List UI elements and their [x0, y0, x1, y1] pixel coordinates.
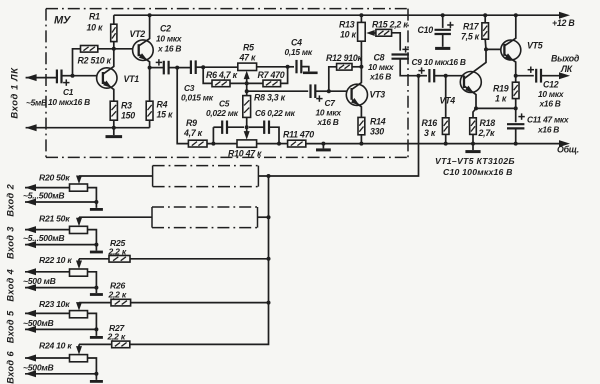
svg-text:7,5 к: 7,5 к [461, 32, 480, 42]
capacitor C4 [297, 60, 302, 73]
MU block dash-dot border [46, 9, 408, 158]
R24 wiper arrow [78, 344, 80, 351]
wire R22 right down [88, 272, 97, 293]
node R17/VT4 coll/VT5 base [484, 47, 488, 51]
resistor R15 [376, 29, 392, 36]
ground input stage 2 [90, 208, 103, 211]
svg-text:Выход: Выход [551, 54, 580, 64]
svg-text:VT2: VT2 [130, 29, 146, 39]
svg-text:10 мкх: 10 мкх [368, 62, 394, 72]
svg-text:C10 100мкх16 В: C10 100мкх16 В [443, 167, 513, 177]
svg-text:х16 В: х16 В [537, 125, 559, 135]
wire R20 wiper to MU2 [79, 175, 153, 177]
transistor VT4 [460, 49, 486, 108]
svg-text:C12: C12 [543, 80, 559, 90]
svg-text:C1: C1 [63, 87, 74, 97]
arrow input2 upper [25, 184, 36, 191]
svg-text:R6 4,7 к: R6 4,7 к [206, 70, 238, 80]
wire wiper down [246, 83, 248, 95]
ground under R3 [106, 128, 123, 137]
R20 wiper arrow [78, 176, 80, 181]
svg-text:х16 В: х16 В [369, 72, 391, 82]
wire C8 to C9 node [400, 59, 418, 76]
resistor R6 [212, 80, 230, 87]
arrow input1 upper [26, 74, 37, 81]
resistor R19 [512, 82, 519, 98]
resistor R1 [111, 24, 117, 41]
node R19/C11 [514, 106, 518, 110]
wire R23 right down [88, 313, 97, 336]
svg-text:Вход 3: Вход 3 [6, 226, 16, 259]
svg-text:R12 910к: R12 910к [326, 53, 363, 63]
svg-text:10 мкх16 В: 10 мкх16 В [48, 97, 90, 107]
R10 wiper arrow [246, 127, 248, 136]
dashed block MU3 [152, 207, 258, 228]
resistor R27 [112, 341, 130, 348]
svg-text:~500 мВ: ~500 мВ [23, 276, 56, 286]
ground input stage 3 [90, 251, 103, 254]
svg-text:R1: R1 [89, 12, 100, 22]
wire R6 to R7 [230, 82, 263, 84]
node input4 return [94, 286, 98, 290]
svg-text:C9 10 мкх16 В: C9 10 мкх16 В [412, 57, 466, 67]
wire VT4 emitter to R19 bottom [476, 107, 516, 109]
resistor R16 [442, 118, 449, 135]
R5 wiper arrow [246, 74, 248, 83]
svg-text:R9: R9 [186, 118, 197, 128]
svg-text:C7: C7 [325, 98, 336, 108]
wire node X to C3 [177, 67, 191, 69]
svg-text:R16: R16 [422, 118, 438, 128]
svg-text:150: 150 [121, 111, 135, 121]
svg-text:R14: R14 [370, 117, 386, 127]
node R13 top on rail [359, 13, 363, 17]
wire R2 left down to base node [73, 49, 81, 76]
wire C9 to VT4 base node [434, 75, 446, 77]
arrow input6 lower [25, 370, 36, 377]
node R8/C5/C6 [245, 125, 249, 129]
wire R16 bottom [445, 134, 447, 143]
wire base node up to R12 [329, 67, 337, 91]
wire R15 to C8 [392, 33, 401, 51]
svg-text:R11 470: R11 470 [283, 130, 314, 140]
transistor VT2 [133, 15, 154, 67]
resistor R8 [243, 96, 251, 118]
wire node up to C5 [212, 127, 214, 143]
svg-text:R21 50к: R21 50к [39, 214, 70, 224]
svg-text:C5: C5 [219, 99, 230, 109]
svg-text:R4: R4 [157, 100, 168, 110]
potentiometer R24 [70, 355, 88, 362]
svg-text:0,022 мк: 0,022 мк [206, 108, 239, 118]
wire mixing bus [130, 176, 269, 344]
capacitor C9 [418, 67, 434, 82]
capacitor C1 [57, 70, 70, 86]
arrow input3 lower [25, 241, 36, 248]
svg-text:R23 10к: R23 10к [39, 299, 70, 309]
node bus R26 [267, 301, 271, 305]
svg-text:R20 50к: R20 50к [39, 172, 70, 182]
wire input4 lower [25, 287, 96, 289]
wire input5 lower [25, 328, 96, 330]
node R14 on rail [359, 142, 363, 146]
wire MU2 output to mix node [258, 76, 418, 176]
svg-text:15 к: 15 к [157, 110, 173, 120]
wire input2 upper [25, 187, 70, 189]
svg-text:х16 В: х16 В [539, 99, 561, 109]
resistor R9 [188, 140, 207, 147]
svg-text:C3: C3 [184, 83, 195, 93]
wire R1 bottom to node [113, 42, 115, 49]
wire input6 lower [25, 373, 96, 375]
wire to VT2 base [114, 48, 139, 50]
wire +12V rail [114, 14, 566, 16]
wire node down to R16 [445, 76, 447, 118]
wire input1 upper [26, 77, 56, 79]
wire emitter to R19 [515, 76, 517, 83]
wire common rail [306, 143, 566, 145]
wire R25 to bus [130, 258, 269, 260]
potentiometer R23 [70, 311, 88, 318]
wire C11 bottom [515, 128, 517, 143]
arrow output [559, 72, 570, 79]
capacitor C2 [156, 59, 169, 74]
svg-text:10 мкх: 10 мкх [538, 89, 564, 99]
node C9 input [417, 74, 421, 78]
ground input stage 4 [90, 293, 103, 296]
svg-text:0,15 мк: 0,15 мк [285, 47, 313, 57]
wire to R11 [279, 143, 288, 145]
wire R21 right down [88, 230, 97, 251]
wire R7 up to N2 [281, 67, 288, 84]
resistor R26 [111, 299, 131, 306]
wire N2 to C4 [288, 66, 294, 68]
wire C7 to VT3 base node [315, 90, 329, 92]
arrow input5 upper [25, 310, 36, 317]
node C1/R2/VT1 base [71, 74, 75, 78]
node bus top [267, 174, 271, 178]
dashed block MU2 [153, 166, 259, 187]
wire R4 bottom to return [149, 120, 151, 128]
svg-text:4,7 к: 4,7 к [183, 128, 203, 138]
svg-text:~5...500мВ: ~5...500мВ [23, 191, 64, 201]
svg-text:Вход 1 ЛК: Вход 1 ЛК [9, 67, 20, 119]
wire VT2 emitter to R4 [149, 68, 151, 102]
svg-text:0,015 мк: 0,015 мк [181, 93, 214, 103]
svg-text:~500мВ: ~500мВ [23, 362, 53, 372]
wire R10 right [257, 143, 279, 145]
wire emitter to C12 [516, 75, 534, 77]
arrow +12V rail end [559, 12, 570, 19]
node R16 on rail [444, 142, 448, 146]
wire rail to C10 [442, 15, 444, 28]
svg-text:Общ.: Общ. [557, 145, 579, 155]
svg-text:х16 В: х16 В [317, 117, 339, 127]
node VT4 emitter [474, 106, 478, 110]
svg-text:R2 510 к: R2 510 к [78, 56, 112, 66]
resistor R7 [263, 80, 281, 87]
resistor R18 [470, 118, 477, 135]
wire to VT1 base [73, 75, 103, 77]
wire R20 right down [88, 188, 97, 208]
capacitor C10 [435, 22, 454, 34]
R21 wiper arrow [78, 217, 80, 223]
svg-text:VT3: VT3 [370, 90, 386, 100]
svg-text:C10: C10 [418, 25, 434, 35]
wire input3 lower [25, 244, 96, 246]
wire emitter to R18 [473, 108, 476, 117]
svg-text:Вход 2: Вход 2 [6, 183, 16, 216]
node R17 top on rail [483, 13, 487, 17]
svg-text:Вход 4: Вход 4 [6, 269, 16, 302]
resistor R2 [81, 46, 98, 53]
resistor R12 [337, 64, 352, 71]
resistor R4 [146, 101, 153, 120]
svg-text:+12 В: +12 В [552, 18, 575, 28]
svg-text:10 к: 10 к [340, 30, 356, 40]
svg-text:R10 47 к: R10 47 к [228, 149, 262, 159]
wire R24 right down [88, 358, 97, 380]
arrow input6 upper [25, 355, 36, 362]
wire R13 bottom to collector node [360, 41, 362, 67]
wire C10 to ground [442, 34, 444, 46]
svg-text:~5мВ: ~5мВ [26, 98, 47, 108]
node C11 on rail [514, 142, 518, 146]
node R5 wiper junction [245, 81, 249, 85]
wire node to C9 [419, 75, 428, 77]
wire R22 wiper to R25 [79, 258, 109, 260]
capacitor C11 [507, 113, 525, 128]
svg-text:47 к: 47 к [239, 53, 256, 63]
wire R19 bottom [515, 99, 517, 109]
svg-text:R3: R3 [121, 101, 132, 111]
resistor R25 [109, 256, 130, 263]
potentiometer R10 [237, 140, 257, 147]
wire node to R2 [98, 48, 114, 50]
capacitor C3 [191, 60, 196, 74]
svg-text:10 к: 10 к [87, 23, 103, 33]
svg-text:C11 47 мкх: C11 47 мкх [527, 115, 569, 125]
svg-text:330: 330 [370, 127, 384, 137]
svg-text:R8 3,3 к: R8 3,3 к [254, 93, 286, 103]
wire C6 down to rail [269, 127, 279, 143]
arrow input3 upper [25, 226, 36, 233]
potentiometer R13 [358, 22, 366, 41]
capacitor C6 [264, 121, 269, 134]
wire input3 upper [25, 229, 70, 231]
arrow input4 upper [25, 268, 36, 275]
svg-text:R18: R18 [480, 118, 496, 128]
ground under R11 [316, 144, 331, 150]
node C10 on rail [441, 13, 445, 17]
ground after C4 [301, 67, 309, 72]
wire input5 upper [25, 312, 70, 314]
svg-text:2,7к: 2,7к [478, 128, 495, 138]
wire R18 bottom [472, 134, 474, 143]
wire R1 top [113, 15, 115, 24]
svg-text:R13: R13 [339, 20, 355, 30]
arrow input4 lower [25, 284, 36, 291]
svg-text:Вход 6: Вход 6 [6, 351, 16, 384]
resistor R3 [110, 101, 117, 120]
node C7 branch [245, 89, 249, 93]
wire input1 return [26, 127, 150, 129]
node VT4 base/R16 [444, 74, 448, 78]
svg-text:х 16 В: х 16 В [157, 44, 181, 54]
node R1/R2/VT2 base [112, 47, 116, 51]
arrow input2 lower [25, 199, 36, 206]
svg-text:R7 470: R7 470 [258, 70, 285, 80]
R23 wiper arrow [78, 303, 80, 308]
ground under C10 [435, 46, 450, 48]
node input6 return [94, 372, 98, 376]
svg-text:VT4: VT4 [440, 96, 456, 106]
wire R3 bottom [113, 120, 115, 128]
capacitor C5 [222, 121, 227, 134]
node rail ground [321, 142, 325, 146]
svg-text:VT5: VT5 [527, 41, 543, 51]
R22 wiper arrow [78, 259, 80, 266]
wire R5 to node N2 [257, 66, 288, 68]
node R3/ground/input return [112, 126, 116, 130]
svg-text:C6 0,22 мк: C6 0,22 мк [255, 108, 296, 118]
wire R23 wiper to R26 [79, 302, 111, 304]
ground under R18 [465, 144, 480, 152]
wire R21 wiper to MU3 [79, 216, 152, 218]
arrow input1 lower [26, 124, 37, 131]
svg-text:R24 10 к: R24 10 к [39, 341, 72, 351]
resistor R11 [288, 140, 306, 147]
svg-text:1 к: 1 к [495, 94, 507, 104]
wire R24 wiper to R27 [79, 343, 112, 345]
svg-text:R15 2,2 к: R15 2,2 к [372, 20, 408, 30]
arrow input5 lower [25, 326, 36, 333]
wire R8 node to C6 [249, 126, 264, 128]
svg-text:2,2 к: 2,2 к [108, 289, 127, 299]
node X after C2 [175, 66, 179, 70]
wire C2 to node X [169, 67, 178, 69]
ground input stage 5 [90, 336, 103, 339]
node N1 [201, 65, 205, 69]
potentiometer R5 [238, 63, 257, 70]
node input3 return [94, 243, 98, 247]
wire to C7 [247, 90, 309, 92]
node R10/C6/R11 [277, 142, 281, 146]
potentiometer R20 [70, 184, 88, 191]
svg-text:R5: R5 [243, 43, 254, 53]
wire to VT3 base bar [329, 90, 352, 92]
node input2 return [94, 200, 98, 204]
transistor VT1 [97, 49, 117, 101]
node VT2 emitter [148, 66, 152, 70]
capacitor C12 [528, 67, 541, 83]
resistor R14 [358, 117, 365, 134]
wire R8 bottom [246, 117, 248, 127]
wire R12 to collector node [352, 66, 361, 68]
R13 wiper arrow [369, 32, 376, 34]
svg-text:ЛК: ЛК [560, 64, 573, 74]
wire emitter to C2 [150, 67, 164, 69]
wire N1 to R5 [203, 66, 238, 68]
wire C12 to output [541, 75, 566, 77]
wire R17 bottom [484, 39, 487, 49]
node VT5 collector on rail [514, 13, 518, 17]
potentiometer R21 [70, 226, 88, 233]
wire to VT5 base [486, 48, 504, 50]
wire R9 to R10 [207, 143, 237, 145]
node VT2 collector on rail [148, 13, 152, 17]
node VT3 base [327, 89, 331, 93]
wire rail to R13 [360, 15, 362, 22]
wire R19 to C11 [515, 108, 517, 122]
node input5 return [94, 327, 98, 331]
svg-text:C2: C2 [160, 24, 171, 34]
svg-text:МУ: МУ [54, 15, 72, 27]
ground input stage 6 [90, 380, 103, 383]
node N2 [286, 65, 290, 69]
svg-text:R19: R19 [493, 84, 509, 94]
node bus MU3 [267, 215, 271, 219]
svg-text:VT1–VT5 КТ3102Б: VT1–VT5 КТ3102Б [435, 156, 515, 166]
node VT5 emitter [514, 74, 518, 78]
wire C5 left [213, 126, 222, 128]
wire C1 to node [62, 75, 73, 77]
svg-text:10 мкх: 10 мкх [316, 108, 342, 118]
svg-text:R22 10 к: R22 10 к [39, 255, 72, 265]
wire input2 lower [25, 201, 96, 203]
svg-text:~500мВ: ~500мВ [23, 318, 53, 328]
svg-text:2,2 к: 2,2 к [107, 332, 126, 342]
capacitor C8 [392, 46, 409, 59]
wire to VT4 base bar [446, 75, 464, 77]
node VT3 collector/R13 [359, 65, 363, 69]
node R18 on rail [471, 142, 475, 146]
transistor VT3 [346, 67, 367, 118]
resistor R17 [482, 23, 489, 39]
wire node X down to R9 [177, 68, 188, 144]
node R9/R10/C5 [211, 142, 215, 146]
svg-text:~5...500мВ: ~5...500мВ [23, 233, 64, 243]
node bus R25 [267, 257, 271, 261]
svg-text:VT1: VT1 [124, 74, 140, 84]
wire MU3 output to bus [258, 216, 269, 218]
arrow common rail end [559, 140, 570, 147]
svg-text:2,2 к: 2,2 к [108, 246, 127, 256]
svg-text:C8: C8 [374, 53, 385, 63]
wire C3 to node N1 [196, 66, 204, 68]
wire R26 to bus [131, 302, 269, 304]
wire input6 upper [25, 357, 70, 359]
potentiometer R22 [70, 269, 88, 276]
svg-text:3 к: 3 к [424, 128, 436, 138]
svg-text:Вход 5: Вход 5 [6, 310, 16, 343]
wire N1 down to R6 [203, 67, 212, 83]
capacitor C7 [311, 84, 323, 101]
svg-text:C4: C4 [291, 38, 302, 48]
transistor VT5 [501, 15, 521, 75]
wire R14 bottom [360, 135, 362, 144]
svg-text:10 мкх: 10 мкх [156, 34, 182, 44]
wire input4 upper [25, 271, 70, 273]
wire C5 to R8 node [227, 126, 244, 128]
wire rail to R17 [484, 15, 486, 23]
svg-text:R17: R17 [463, 22, 480, 32]
